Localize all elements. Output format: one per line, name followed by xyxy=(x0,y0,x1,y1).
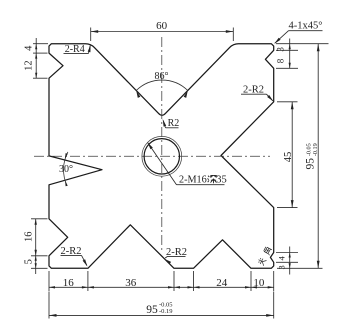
svg-text:24: 24 xyxy=(216,277,228,289)
svg-text:10: 10 xyxy=(253,277,265,289)
svg-text:4-1x45°: 4-1x45° xyxy=(289,21,323,32)
dimension 4 left xyxy=(33,43,48,45)
svg-text:5: 5 xyxy=(23,259,34,264)
svg-text:R2: R2 xyxy=(168,118,180,129)
svg-text:95: 95 xyxy=(305,158,317,170)
svg-text:30°: 30° xyxy=(59,164,73,175)
horizontal centerline xyxy=(34,155,270,157)
svg-text:-0.19: -0.19 xyxy=(159,308,173,315)
dimension 60 top xyxy=(90,28,92,42)
svg-text:16: 16 xyxy=(63,277,75,289)
dimension 5 left lower xyxy=(31,267,48,269)
bottom chain dimensions xyxy=(48,271,50,291)
vertical centerline xyxy=(161,37,163,252)
hanzi shen (depth) xyxy=(208,175,217,183)
part outline xyxy=(49,44,274,269)
label 2-M16 depth 35 with leader through hole xyxy=(177,184,225,186)
dimension 16 left lower xyxy=(31,218,48,220)
svg-text:12: 12 xyxy=(23,60,34,71)
hole thread outer circle xyxy=(142,136,182,176)
svg-text:16: 16 xyxy=(24,232,35,243)
note jianjiao (sharp corner) xyxy=(257,246,272,265)
svg-text:2-R2: 2-R2 xyxy=(243,84,264,95)
svg-text:35: 35 xyxy=(216,175,227,186)
dimension 3 (right top) xyxy=(276,43,329,45)
svg-text:4: 4 xyxy=(277,256,287,261)
dimension 95 -0.05/-0.19 bottom xyxy=(48,292,50,319)
hole 2-M16: inner circle xyxy=(144,139,179,174)
svg-text:45: 45 xyxy=(283,152,294,163)
svg-text:36: 36 xyxy=(125,277,137,289)
svg-text:4: 4 xyxy=(24,45,35,51)
svg-text:-0.19: -0.19 xyxy=(312,143,319,156)
dimension 8 (right top) xyxy=(289,63,291,69)
dimension 4 bottom right xyxy=(276,252,298,254)
svg-text:3: 3 xyxy=(276,265,286,269)
dimension 12 left xyxy=(33,77,48,79)
dimension 95 -0.05/-0.19 right xyxy=(277,267,323,269)
svg-text:2-M16: 2-M16 xyxy=(179,175,207,186)
dimension 45 right xyxy=(277,101,298,103)
dimension 3 bottom right xyxy=(289,263,291,268)
svg-text:60: 60 xyxy=(156,20,168,32)
svg-text:3: 3 xyxy=(276,47,286,52)
svg-text:95: 95 xyxy=(146,304,158,316)
svg-text:8: 8 xyxy=(276,58,286,63)
